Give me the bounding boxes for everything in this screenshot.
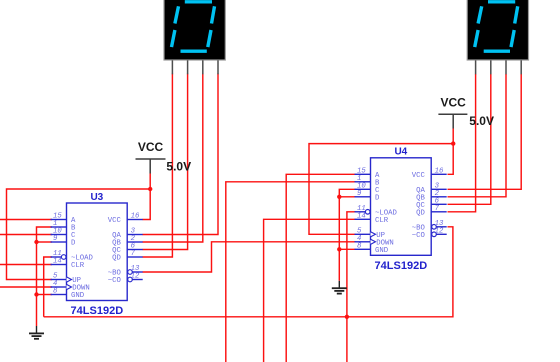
wire load net bottom rail to U4 ~BO [44,227,453,317]
wire U4 QC to display DS2 pin 2 [448,74,491,204]
wire VCC symbol 1 drop [149,174,151,190]
svg-text:8: 8 [357,242,362,250]
wire U4 QD to display DS2 pin 1 [448,74,476,212]
svg-text:~CO: ~CO [108,277,122,285]
power symbol VCC 2 [438,96,467,129]
svg-text:16: 16 [435,167,444,175]
DS2 segment e [475,30,478,47]
svg-text:CLR: CLR [71,262,85,270]
op-amp substitute: counter IC U4 box [371,158,432,256]
U3 ~BO pin stub with inversion bubble, pin 13 [128,270,143,275]
DS2 segment b [515,6,518,23]
wire VCC net 1: rail to U3 UP pin [7,189,151,280]
wire U3 pin A from left edge [0,219,52,221]
svg-text:GND: GND [71,292,85,300]
wire VCC symbol 2 drop [452,129,454,144]
wire U3 pin D to ground rail [37,241,53,243]
DS2 segment c [511,30,514,47]
wire load net: U3 ~LOAD down to bottom rail [44,257,52,317]
U3 left pin labels [71,217,94,300]
DS2 segment d [484,50,510,53]
DS2 segment f [478,6,482,23]
U3 ~CO pin stub with inversion bubble, pin 12 [128,277,143,282]
junction dot GND/ground rail U4 [337,247,341,251]
U3 UP clock triangle [67,277,72,282]
svg-text:GND: GND [375,247,389,255]
DS1 segment d [181,50,207,53]
svg-text:12: 12 [131,273,140,281]
DS1 segment f [175,6,179,23]
U4 ~CO pin stub with inversion bubble, pin 12 [432,232,447,237]
junction dot load net / bottom rail [345,315,349,319]
ground symbol GND2 [332,281,347,294]
svg-text:VCC: VCC [138,140,164,154]
svg-text:74LS192D: 74LS192D [375,260,428,272]
U4 left pin labels [375,172,398,255]
wire U4 pin CLR from bottom edge [264,219,356,362]
junction dot GND/ground rail U3 [34,292,38,296]
wire U3 QA to display DS1 pin 4 [143,74,219,235]
junction dot D/ground rail U4 [337,195,341,199]
svg-text:U4: U4 [394,147,407,158]
wire U4 pin A from bottom edge [286,174,355,362]
svg-text:VCC: VCC [441,96,467,110]
svg-text:7: 7 [131,250,136,258]
wire U3 pin CLR from left edge [0,264,52,266]
svg-text:9: 9 [357,190,362,198]
U4 UP clock triangle [371,232,376,237]
svg-text:8: 8 [53,288,58,296]
wire ground net U4: C, D, GND pins to ground [339,189,355,280]
7-segment display DS1 body [164,0,225,60]
svg-text:14: 14 [53,258,62,266]
junction dot D/ground rail U3 [34,240,38,244]
U4 left pin stubs [355,174,371,249]
wire VCC net 1 to U3 pin 16 [143,189,151,220]
wire VCC net 2: rail to U4 UP pin [309,144,453,235]
U4 ~BO pin stub with inversion bubble, pin 13 [432,225,447,230]
wire U4 pin D to ground rail [339,196,355,198]
wire load net branch up to U4 ~LOAD [347,212,356,362]
junction dot VCC net 1 [148,187,152,191]
DS1 segment b [212,6,215,23]
svg-text:5.0V: 5.0V [166,160,191,174]
DS1 segment e [172,30,175,47]
svg-text:9: 9 [53,235,58,243]
svg-text:VCC: VCC [108,217,122,225]
svg-text:5.0V: 5.0V [469,114,494,128]
svg-text:14: 14 [357,212,366,220]
U4 right pin numbers [435,167,444,235]
wire U4 QB to display DS2 pin 3 [448,74,507,197]
DS1 pin leads [172,60,218,74]
svg-text:~CO: ~CO [412,232,426,240]
wire U3 QC to display DS1 pin 2 [143,74,188,250]
U3 left pin numbers [53,213,62,296]
DS2 pin leads [476,60,522,74]
svg-text:QD: QD [112,255,121,263]
svg-text:VCC: VCC [412,172,426,180]
wire U3 QB to display DS1 pin 3 [143,74,203,243]
wire U3 pin GND to ground rail [37,294,53,296]
U3 right pin stubs [127,220,143,258]
wire U4 pin B from bottom edge [226,182,356,362]
svg-text:12: 12 [435,227,444,235]
ground symbol GND1 [29,326,44,339]
power symbol VCC 1 [136,140,166,174]
junction dot VCC net 2 [451,141,455,145]
wire ground net U3: B, D, GND pins to ground [37,227,53,326]
U3 right pin labels [108,217,122,285]
U4 right pin labels [412,172,426,240]
U4 DOWN clock triangle [371,239,376,244]
op-amp substitute: counter IC U3 box [67,203,128,301]
DS1 segment a [185,0,212,3]
wire U3 pin C from left edge [0,234,52,236]
svg-text:U3: U3 [90,192,103,203]
U4 ~LOAD pin stub with inversion bubble, pin 11 [355,210,371,215]
wire U4 pin GND to ground rail [339,248,355,250]
wire U4 QA to display DS2 pin 4 [448,74,522,189]
svg-text:QD: QD [416,209,425,217]
wire U3 QD to display DS1 pin 1 [143,74,173,258]
7-segment display DS2 body [467,0,528,60]
svg-text:16: 16 [131,213,140,221]
U4 left pin numbers [357,167,366,250]
U3 left pin stubs [51,220,67,295]
svg-text:74LS192D: 74LS192D [71,305,124,317]
U3 right pin numbers [131,213,140,281]
DS2 segment a [488,0,515,3]
wire cascade U3 ~BO to U4 DOWN [143,242,356,272]
svg-text:D: D [71,240,76,248]
svg-text:7: 7 [435,205,440,213]
svg-text:CLR: CLR [375,217,389,225]
wire VCC net 2 to U4 pin 16 [448,144,454,175]
wire U3 pin DOWN from left edge (clock) [0,286,52,288]
DS1 segment c [208,30,211,47]
U4 right pin stubs [431,174,447,212]
U3 ~LOAD pin stub with inversion bubble, pin 11 [51,255,67,260]
svg-text:D: D [375,194,380,202]
U3 DOWN clock triangle [67,284,72,289]
